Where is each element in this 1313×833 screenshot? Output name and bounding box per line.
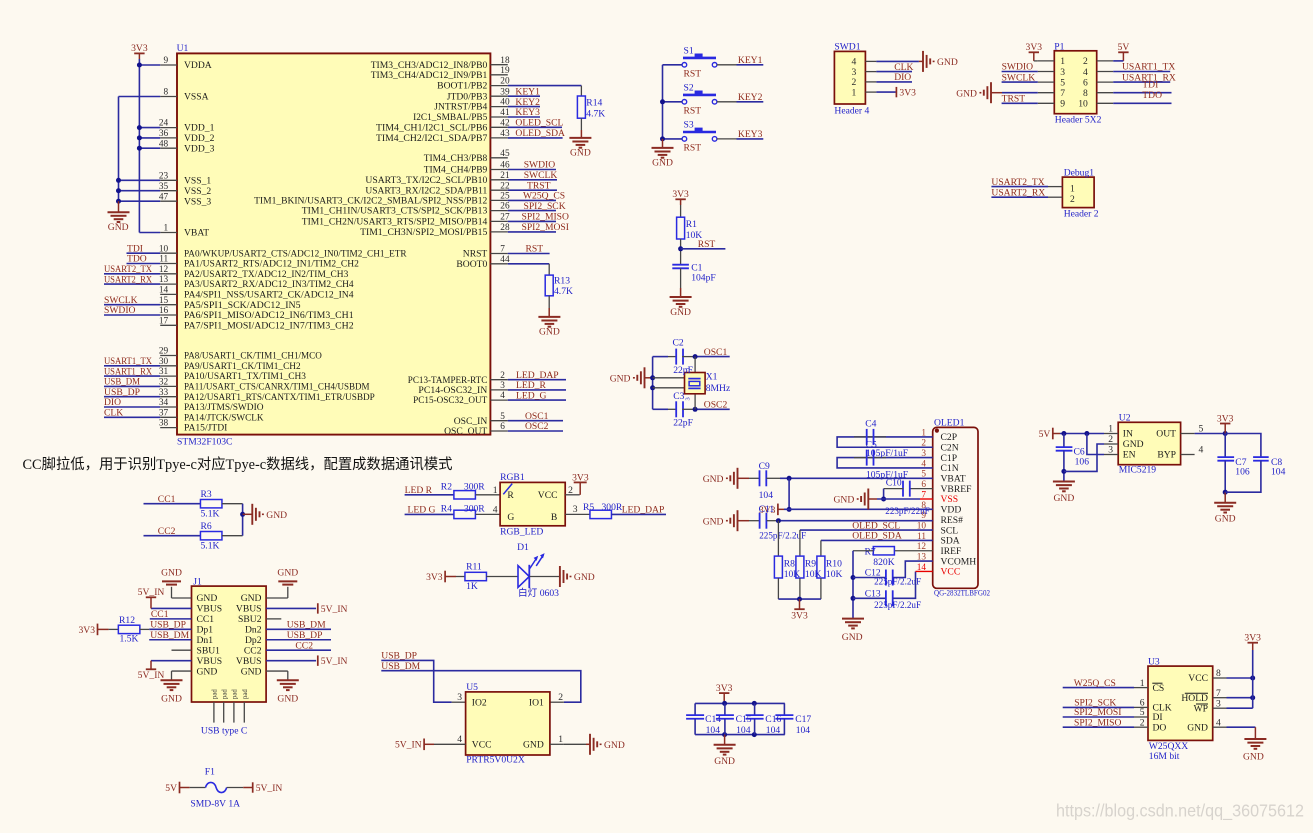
svg-text:10: 10 — [1078, 99, 1088, 110]
svg-text:WP: WP — [1194, 703, 1208, 714]
svg-text:U5: U5 — [466, 682, 478, 693]
svg-text:14: 14 — [159, 286, 169, 296]
svg-text:USB_DM: USB_DM — [287, 620, 326, 631]
svg-text:2: 2 — [500, 371, 505, 381]
svg-text:R14: R14 — [586, 97, 602, 108]
svg-text:VDD: VDD — [941, 505, 962, 516]
svg-text:5.1K: 5.1K — [201, 541, 220, 552]
svg-text:1: 1 — [1070, 184, 1075, 195]
svg-text:3: 3 — [457, 692, 462, 703]
svg-text:DIO: DIO — [894, 72, 911, 83]
svg-text:RST: RST — [526, 244, 544, 255]
svg-text:GND: GND — [161, 568, 182, 579]
svg-text:5V: 5V — [165, 783, 177, 794]
svg-text:5V: 5V — [1118, 42, 1130, 53]
svg-text:SPI2_MOSI: SPI2_MOSI — [522, 222, 569, 233]
svg-text:GND: GND — [241, 666, 262, 677]
svg-text:JNTRST/PB4: JNTRST/PB4 — [434, 102, 487, 113]
svg-text:GND: GND — [570, 148, 591, 159]
svg-text:R: R — [507, 490, 514, 501]
svg-text:GND: GND — [610, 373, 631, 384]
svg-text:LED_G: LED_G — [516, 390, 546, 401]
svg-text:2: 2 — [1108, 434, 1113, 445]
svg-text:Dn1: Dn1 — [197, 635, 214, 646]
svg-text:2: 2 — [1140, 717, 1145, 728]
svg-text:P1: P1 — [1054, 42, 1064, 53]
svg-text:105pF/1uF: 105pF/1uF — [866, 448, 908, 459]
svg-text:1: 1 — [164, 224, 169, 234]
svg-text:33: 33 — [159, 388, 169, 398]
svg-text:C2N: C2N — [941, 442, 959, 453]
svg-text:3V3: 3V3 — [1244, 633, 1261, 644]
svg-text:GND: GND — [703, 474, 724, 485]
svg-text:R13: R13 — [554, 275, 570, 286]
svg-text:USB type C: USB type C — [201, 725, 247, 736]
svg-text:OLED_SDA: OLED_SDA — [515, 128, 565, 139]
svg-text:GND: GND — [277, 568, 298, 579]
svg-text:TIM1_CH1IN/USART3_CTS/SPI2_SCK: TIM1_CH1IN/USART3_CTS/SPI2_SCK/PB13 — [302, 206, 488, 217]
svg-text:BYP: BYP — [1157, 450, 1176, 461]
svg-text:R8: R8 — [784, 558, 795, 569]
svg-text:6: 6 — [500, 422, 505, 432]
svg-text:R5: R5 — [583, 502, 594, 513]
svg-text:3V3: 3V3 — [78, 625, 95, 636]
svg-text:31: 31 — [159, 367, 169, 377]
svg-text:RGB1: RGB1 — [500, 472, 525, 483]
svg-text:1: 1 — [685, 367, 692, 370]
svg-text:SPI2_MISO: SPI2_MISO — [522, 212, 570, 223]
svg-text:Header 2: Header 2 — [1064, 208, 1099, 219]
svg-text:22pF: 22pF — [673, 418, 693, 429]
svg-text:U1: U1 — [177, 43, 189, 54]
svg-text:C2: C2 — [673, 337, 684, 348]
svg-text:BOOT1/PB2: BOOT1/PB2 — [437, 81, 487, 92]
svg-text:OLED1: OLED1 — [934, 418, 965, 429]
svg-text:VSS_2: VSS_2 — [184, 186, 211, 197]
svg-text:30: 30 — [159, 357, 169, 367]
svg-text:32: 32 — [159, 378, 169, 388]
svg-text:Debug1: Debug1 — [1064, 167, 1095, 178]
svg-text:BOOT0: BOOT0 — [456, 259, 487, 270]
svg-text:https://blog.csdn.net/qq_36075: https://blog.csdn.net/qq_36075612 — [1056, 801, 1304, 822]
svg-text:106: 106 — [1235, 467, 1250, 478]
svg-text:C2P: C2P — [941, 432, 958, 443]
svg-text:5: 5 — [1060, 77, 1065, 88]
svg-text:G: G — [507, 512, 514, 523]
svg-text:RST: RST — [684, 143, 702, 154]
svg-text:VSS: VSS — [941, 494, 959, 505]
svg-text:SBU2: SBU2 — [238, 614, 262, 625]
svg-text:35: 35 — [159, 182, 169, 192]
svg-text:QG-2832TLBFG02: QG-2832TLBFG02 — [934, 587, 990, 597]
svg-text:GND: GND — [197, 666, 218, 677]
svg-text:5: 5 — [500, 412, 505, 422]
svg-text:GND: GND — [277, 694, 298, 705]
svg-text:J1: J1 — [193, 577, 202, 588]
svg-text:GND: GND — [652, 158, 673, 169]
svg-text:7: 7 — [1060, 88, 1065, 99]
svg-text:104: 104 — [796, 725, 811, 736]
svg-text:9: 9 — [1060, 99, 1065, 110]
svg-text:TIM4_CH1/I2C1_SCL/PB6: TIM4_CH1/I2C1_SCL/PB6 — [376, 122, 488, 133]
svg-text:GND: GND — [266, 510, 287, 521]
svg-text:Header 4: Header 4 — [834, 105, 869, 116]
svg-text:8MHz: 8MHz — [706, 383, 731, 394]
svg-text:5V_IN: 5V_IN — [138, 587, 165, 598]
svg-text:R10: R10 — [826, 558, 842, 569]
svg-text:8: 8 — [164, 88, 169, 98]
svg-text:IO1: IO1 — [529, 697, 544, 708]
svg-text:820K: 820K — [873, 557, 894, 568]
svg-text:1: 1 — [1140, 678, 1145, 689]
svg-text:3V3: 3V3 — [426, 572, 443, 583]
svg-text:TIM4_CH3/PB8: TIM4_CH3/PB8 — [424, 153, 488, 164]
svg-text:104pF: 104pF — [691, 273, 716, 284]
svg-text:C17: C17 — [795, 714, 811, 725]
svg-text:LED_DAP: LED_DAP — [622, 505, 665, 516]
svg-text:11: 11 — [159, 255, 168, 265]
svg-text:SWD1: SWD1 — [834, 42, 860, 53]
svg-text:CLK: CLK — [104, 408, 123, 419]
svg-text:5V_IN: 5V_IN — [138, 670, 165, 681]
svg-text:R9: R9 — [805, 558, 816, 569]
svg-text:GND: GND — [523, 740, 544, 751]
svg-text:300R: 300R — [464, 504, 485, 515]
svg-text:VBUS: VBUS — [197, 656, 223, 667]
svg-text:U3: U3 — [1148, 656, 1160, 667]
svg-text:3V3: 3V3 — [716, 683, 733, 694]
svg-text:16M bit: 16M bit — [1149, 751, 1180, 762]
svg-text:CC2: CC2 — [295, 640, 313, 651]
svg-text:38: 38 — [159, 419, 169, 429]
svg-text:5V_IN: 5V_IN — [321, 656, 348, 667]
svg-text:Header 5X2: Header 5X2 — [1055, 115, 1102, 126]
svg-text:7: 7 — [500, 245, 505, 255]
svg-text:EN: EN — [1123, 450, 1136, 461]
svg-text:OSC2: OSC2 — [704, 400, 728, 411]
svg-text:VCC: VCC — [472, 740, 492, 751]
svg-text:SCL: SCL — [941, 525, 959, 536]
svg-text:104: 104 — [706, 725, 721, 736]
svg-text:4: 4 — [500, 391, 505, 401]
svg-text:C10: C10 — [886, 477, 902, 488]
svg-text:5V_IN: 5V_IN — [395, 740, 422, 751]
svg-text:TIM4_CH2/I2C1_SDA/PB7: TIM4_CH2/I2C1_SDA/PB7 — [376, 133, 488, 144]
svg-text:4: 4 — [1216, 717, 1221, 728]
svg-text:GND: GND — [539, 327, 560, 338]
svg-text:C1P: C1P — [941, 453, 958, 464]
svg-text:Dp1: Dp1 — [197, 625, 214, 636]
svg-text:45: 45 — [500, 149, 510, 159]
svg-text:Dn2: Dn2 — [245, 625, 262, 636]
svg-text:pad: pad — [212, 689, 219, 699]
svg-text:C3: C3 — [673, 391, 684, 402]
svg-text:TIM1_CH3N/SPI2_MOSI/PB15: TIM1_CH3N/SPI2_MOSI/PB15 — [360, 227, 487, 238]
svg-text:37: 37 — [159, 408, 169, 418]
svg-text:KEY2: KEY2 — [738, 92, 763, 103]
svg-text:3: 3 — [685, 397, 692, 400]
svg-text:VCC: VCC — [941, 567, 961, 578]
svg-text:GND: GND — [1215, 514, 1236, 525]
svg-text:白灯 0603: 白灯 0603 — [518, 587, 559, 599]
svg-text:225pF/2.2uF: 225pF/2.2uF — [759, 530, 806, 541]
svg-text:SPI2_SCK: SPI2_SCK — [524, 201, 566, 212]
svg-text:VCC: VCC — [1188, 673, 1208, 684]
svg-text:GND: GND — [703, 516, 724, 527]
svg-text:VDD_3: VDD_3 — [184, 143, 215, 154]
svg-text:48: 48 — [159, 139, 169, 149]
svg-text:15: 15 — [159, 296, 169, 306]
svg-text:R2: R2 — [441, 482, 452, 493]
svg-text:225pF/2.2uF: 225pF/2.2uF — [874, 577, 921, 588]
svg-text:225pF/2.2uF: 225pF/2.2uF — [874, 600, 921, 611]
svg-text:GND: GND — [956, 88, 977, 99]
svg-text:104: 104 — [1271, 467, 1286, 478]
svg-text:VSSA: VSSA — [184, 92, 209, 103]
svg-text:24: 24 — [159, 119, 169, 129]
svg-text:RES#: RES# — [941, 515, 964, 526]
svg-text:5V_IN: 5V_IN — [256, 783, 283, 794]
svg-text:3: 3 — [573, 504, 578, 515]
svg-text:4: 4 — [493, 505, 498, 516]
svg-text:KEY2: KEY2 — [515, 97, 540, 108]
svg-text:2: 2 — [1083, 56, 1088, 67]
svg-text:PA7/SPI1_MOSI/ADC12_IN7/TIM3_C: PA7/SPI1_MOSI/ADC12_IN7/TIM3_CH2 — [184, 320, 354, 331]
svg-text:3V3: 3V3 — [899, 88, 916, 99]
svg-text:IN: IN — [1123, 429, 1133, 440]
svg-text:3V3: 3V3 — [131, 43, 148, 54]
svg-text:VSS_3: VSS_3 — [184, 196, 211, 207]
svg-text:GND: GND — [714, 756, 735, 767]
svg-text:USB_DP: USB_DP — [287, 630, 323, 641]
svg-text:SWCLK: SWCLK — [524, 170, 558, 181]
svg-text:X1: X1 — [706, 372, 718, 383]
svg-text:CS: CS — [1153, 683, 1165, 694]
svg-text:OLED_SDA: OLED_SDA — [852, 531, 902, 542]
svg-text:S2: S2 — [684, 83, 694, 94]
svg-text:USART2_RX: USART2_RX — [104, 274, 152, 285]
svg-text:F1: F1 — [205, 767, 215, 778]
svg-text:DO: DO — [1153, 722, 1167, 733]
svg-text:4: 4 — [1199, 445, 1204, 456]
svg-text:R6: R6 — [201, 521, 212, 532]
svg-text:C16: C16 — [765, 714, 781, 725]
svg-text:106: 106 — [1075, 456, 1090, 467]
svg-text:1: 1 — [1108, 424, 1113, 435]
svg-text:3: 3 — [500, 381, 505, 391]
svg-text:8: 8 — [1083, 88, 1088, 99]
svg-text:3V3: 3V3 — [572, 472, 589, 483]
svg-text:C15: C15 — [736, 714, 752, 725]
svg-text:VCOMH: VCOMH — [941, 556, 977, 567]
svg-text:pad: pad — [232, 689, 239, 699]
svg-text:3V3: 3V3 — [791, 611, 808, 622]
svg-text:PC15-OSC32_OUT: PC15-OSC32_OUT — [413, 395, 487, 406]
svg-text:IREF: IREF — [941, 546, 962, 557]
svg-text:RST: RST — [698, 239, 716, 250]
svg-text:CC2: CC2 — [244, 645, 262, 656]
svg-text:GND: GND — [1123, 439, 1144, 450]
svg-text:23: 23 — [159, 171, 169, 181]
svg-text:36: 36 — [159, 129, 169, 139]
svg-text:4.7K: 4.7K — [554, 286, 573, 297]
svg-text:3: 3 — [1060, 67, 1065, 78]
svg-text:13: 13 — [159, 275, 169, 285]
svg-text:18: 18 — [500, 56, 510, 66]
svg-text:2: 2 — [558, 692, 563, 703]
svg-text:GND: GND — [241, 593, 262, 604]
svg-text:VBAT: VBAT — [184, 228, 209, 239]
svg-text:34: 34 — [159, 398, 169, 408]
svg-text:IO2: IO2 — [472, 697, 487, 708]
svg-text:C14: C14 — [705, 714, 721, 725]
svg-text:OSC2: OSC2 — [525, 421, 549, 432]
svg-text:SMD-8V 1A: SMD-8V 1A — [190, 799, 240, 810]
svg-text:HOLD: HOLD — [1181, 693, 1208, 704]
svg-text:1: 1 — [852, 87, 857, 98]
svg-text:1K: 1K — [466, 581, 478, 592]
svg-text:3: 3 — [1108, 445, 1113, 456]
svg-text:17: 17 — [159, 316, 169, 326]
svg-text:S1: S1 — [684, 46, 694, 57]
svg-text:GND: GND — [834, 495, 855, 506]
svg-text:OLED_SCL: OLED_SCL — [515, 118, 563, 129]
svg-text:B: B — [551, 512, 557, 523]
svg-text:7: 7 — [1216, 688, 1221, 699]
svg-text:TDO: TDO — [1142, 90, 1162, 101]
svg-text:GND: GND — [1187, 722, 1208, 733]
svg-text:3V3: 3V3 — [1026, 42, 1043, 53]
svg-text:C4: C4 — [865, 418, 876, 429]
svg-text:1.5K: 1.5K — [120, 634, 139, 645]
svg-text:GND: GND — [197, 593, 218, 604]
svg-text:29: 29 — [159, 347, 169, 357]
svg-text:OUT: OUT — [1156, 429, 1176, 440]
svg-text:Dp2: Dp2 — [245, 635, 262, 646]
svg-text:5V: 5V — [1039, 429, 1051, 440]
svg-text:223pF/22nF: 223pF/22nF — [885, 506, 929, 517]
svg-text:GND: GND — [1243, 752, 1264, 763]
svg-text:GND: GND — [670, 307, 691, 318]
svg-text:104: 104 — [759, 490, 774, 501]
svg-text:GND: GND — [937, 57, 958, 68]
svg-text:R4: R4 — [441, 504, 452, 515]
svg-text:GND: GND — [574, 572, 595, 583]
svg-text:5.1K: 5.1K — [201, 509, 220, 520]
svg-text:10K: 10K — [784, 569, 801, 580]
svg-text:GND: GND — [842, 632, 863, 643]
svg-text:R3: R3 — [201, 489, 212, 500]
svg-text:CC脚拉低，用于识别Tpye-c对应Tpye-c数据线，配置: CC脚拉低，用于识别Tpye-c对应Tpye-c数据线，配置成数据通讯模式 — [23, 455, 453, 473]
svg-text:R11: R11 — [466, 562, 482, 573]
svg-text:OSC_OUT: OSC_OUT — [444, 426, 487, 437]
svg-text:S3: S3 — [684, 120, 694, 131]
svg-text:8: 8 — [1216, 668, 1221, 679]
svg-text:C1N: C1N — [941, 463, 959, 474]
svg-text:MIC5219: MIC5219 — [1119, 465, 1157, 476]
svg-text:CC1: CC1 — [197, 614, 215, 625]
svg-text:300R: 300R — [602, 502, 623, 513]
svg-text:RST: RST — [684, 69, 702, 80]
svg-text:VBAT: VBAT — [941, 474, 966, 485]
svg-text:STM32F103C: STM32F103C — [177, 437, 232, 448]
svg-text:1: 1 — [1060, 56, 1065, 67]
svg-text:JTD0/PB3: JTD0/PB3 — [447, 91, 488, 102]
svg-text:U2: U2 — [1119, 412, 1131, 423]
svg-text:VBUS: VBUS — [236, 656, 262, 667]
svg-text:19: 19 — [500, 66, 510, 76]
svg-text:3V3: 3V3 — [1217, 413, 1234, 424]
svg-text:RGB_LED: RGB_LED — [500, 527, 543, 538]
svg-text:GND: GND — [1054, 493, 1075, 504]
svg-text:104: 104 — [736, 725, 751, 736]
svg-text:RST: RST — [684, 106, 702, 117]
svg-text:SDA: SDA — [941, 536, 960, 547]
svg-text:TIM1_CH2N/USART3_RTS/SPI2_MISO: TIM1_CH2N/USART3_RTS/SPI2_MISO/PB14 — [302, 217, 488, 228]
svg-text:VDDA: VDDA — [184, 60, 212, 71]
svg-text:1: 1 — [493, 485, 498, 496]
svg-text:C13: C13 — [865, 589, 881, 600]
svg-text:5V_IN: 5V_IN — [321, 604, 348, 615]
svg-text:C9: C9 — [759, 461, 770, 472]
svg-text:SWDIO: SWDIO — [104, 305, 136, 316]
svg-text:4: 4 — [1083, 67, 1088, 78]
svg-text:10K: 10K — [805, 569, 822, 580]
svg-text:6: 6 — [1083, 77, 1088, 88]
svg-text:4: 4 — [457, 734, 462, 745]
svg-text:VBUS: VBUS — [197, 604, 223, 615]
svg-text:R1: R1 — [686, 219, 697, 230]
svg-text:KEY1: KEY1 — [738, 55, 763, 66]
svg-text:R12: R12 — [119, 615, 135, 626]
svg-text:2: 2 — [568, 485, 573, 496]
svg-text:PRTR5V0U2X: PRTR5V0U2X — [466, 754, 525, 765]
svg-text:TDI: TDI — [1142, 80, 1158, 91]
svg-text:104: 104 — [766, 725, 781, 736]
svg-text:GND: GND — [161, 694, 182, 705]
svg-text:GND: GND — [108, 222, 129, 233]
svg-text:1: 1 — [558, 734, 563, 745]
svg-text:47: 47 — [159, 192, 169, 202]
svg-text:TIM3_CH4/ADC12_IN9/PB1: TIM3_CH4/ADC12_IN9/PB1 — [371, 70, 488, 81]
svg-text:VBREF: VBREF — [941, 484, 972, 495]
svg-text:VSS_1: VSS_1 — [184, 175, 211, 186]
svg-text:3V3: 3V3 — [672, 189, 689, 200]
svg-text:4.7K: 4.7K — [586, 109, 605, 120]
svg-text:C11: C11 — [759, 504, 775, 515]
svg-text:3: 3 — [1216, 698, 1221, 709]
svg-text:D1: D1 — [517, 542, 529, 553]
svg-text:OSC1: OSC1 — [704, 347, 728, 358]
svg-text:2: 2 — [1070, 194, 1075, 205]
svg-text:300R: 300R — [464, 482, 485, 493]
svg-text:GND: GND — [604, 740, 625, 751]
svg-text:10: 10 — [159, 244, 169, 254]
svg-text:9: 9 — [164, 56, 169, 66]
svg-text:KEY3: KEY3 — [738, 129, 763, 140]
svg-text:16: 16 — [159, 306, 169, 316]
svg-text:12: 12 — [159, 265, 169, 275]
svg-text:VCC: VCC — [538, 490, 558, 501]
svg-text:VBUS: VBUS — [236, 604, 262, 615]
svg-text:pad: pad — [242, 689, 249, 699]
svg-text:PA15/JTDI: PA15/JTDI — [184, 423, 227, 434]
svg-text:OLED_SCL: OLED_SCL — [852, 520, 900, 531]
svg-text:SBU1: SBU1 — [197, 645, 221, 656]
svg-text:KEY1: KEY1 — [515, 86, 540, 97]
svg-text:R7: R7 — [865, 546, 876, 557]
svg-text:USART3_TX/I2C2_SCL/PB10: USART3_TX/I2C2_SCL/PB10 — [365, 175, 487, 186]
